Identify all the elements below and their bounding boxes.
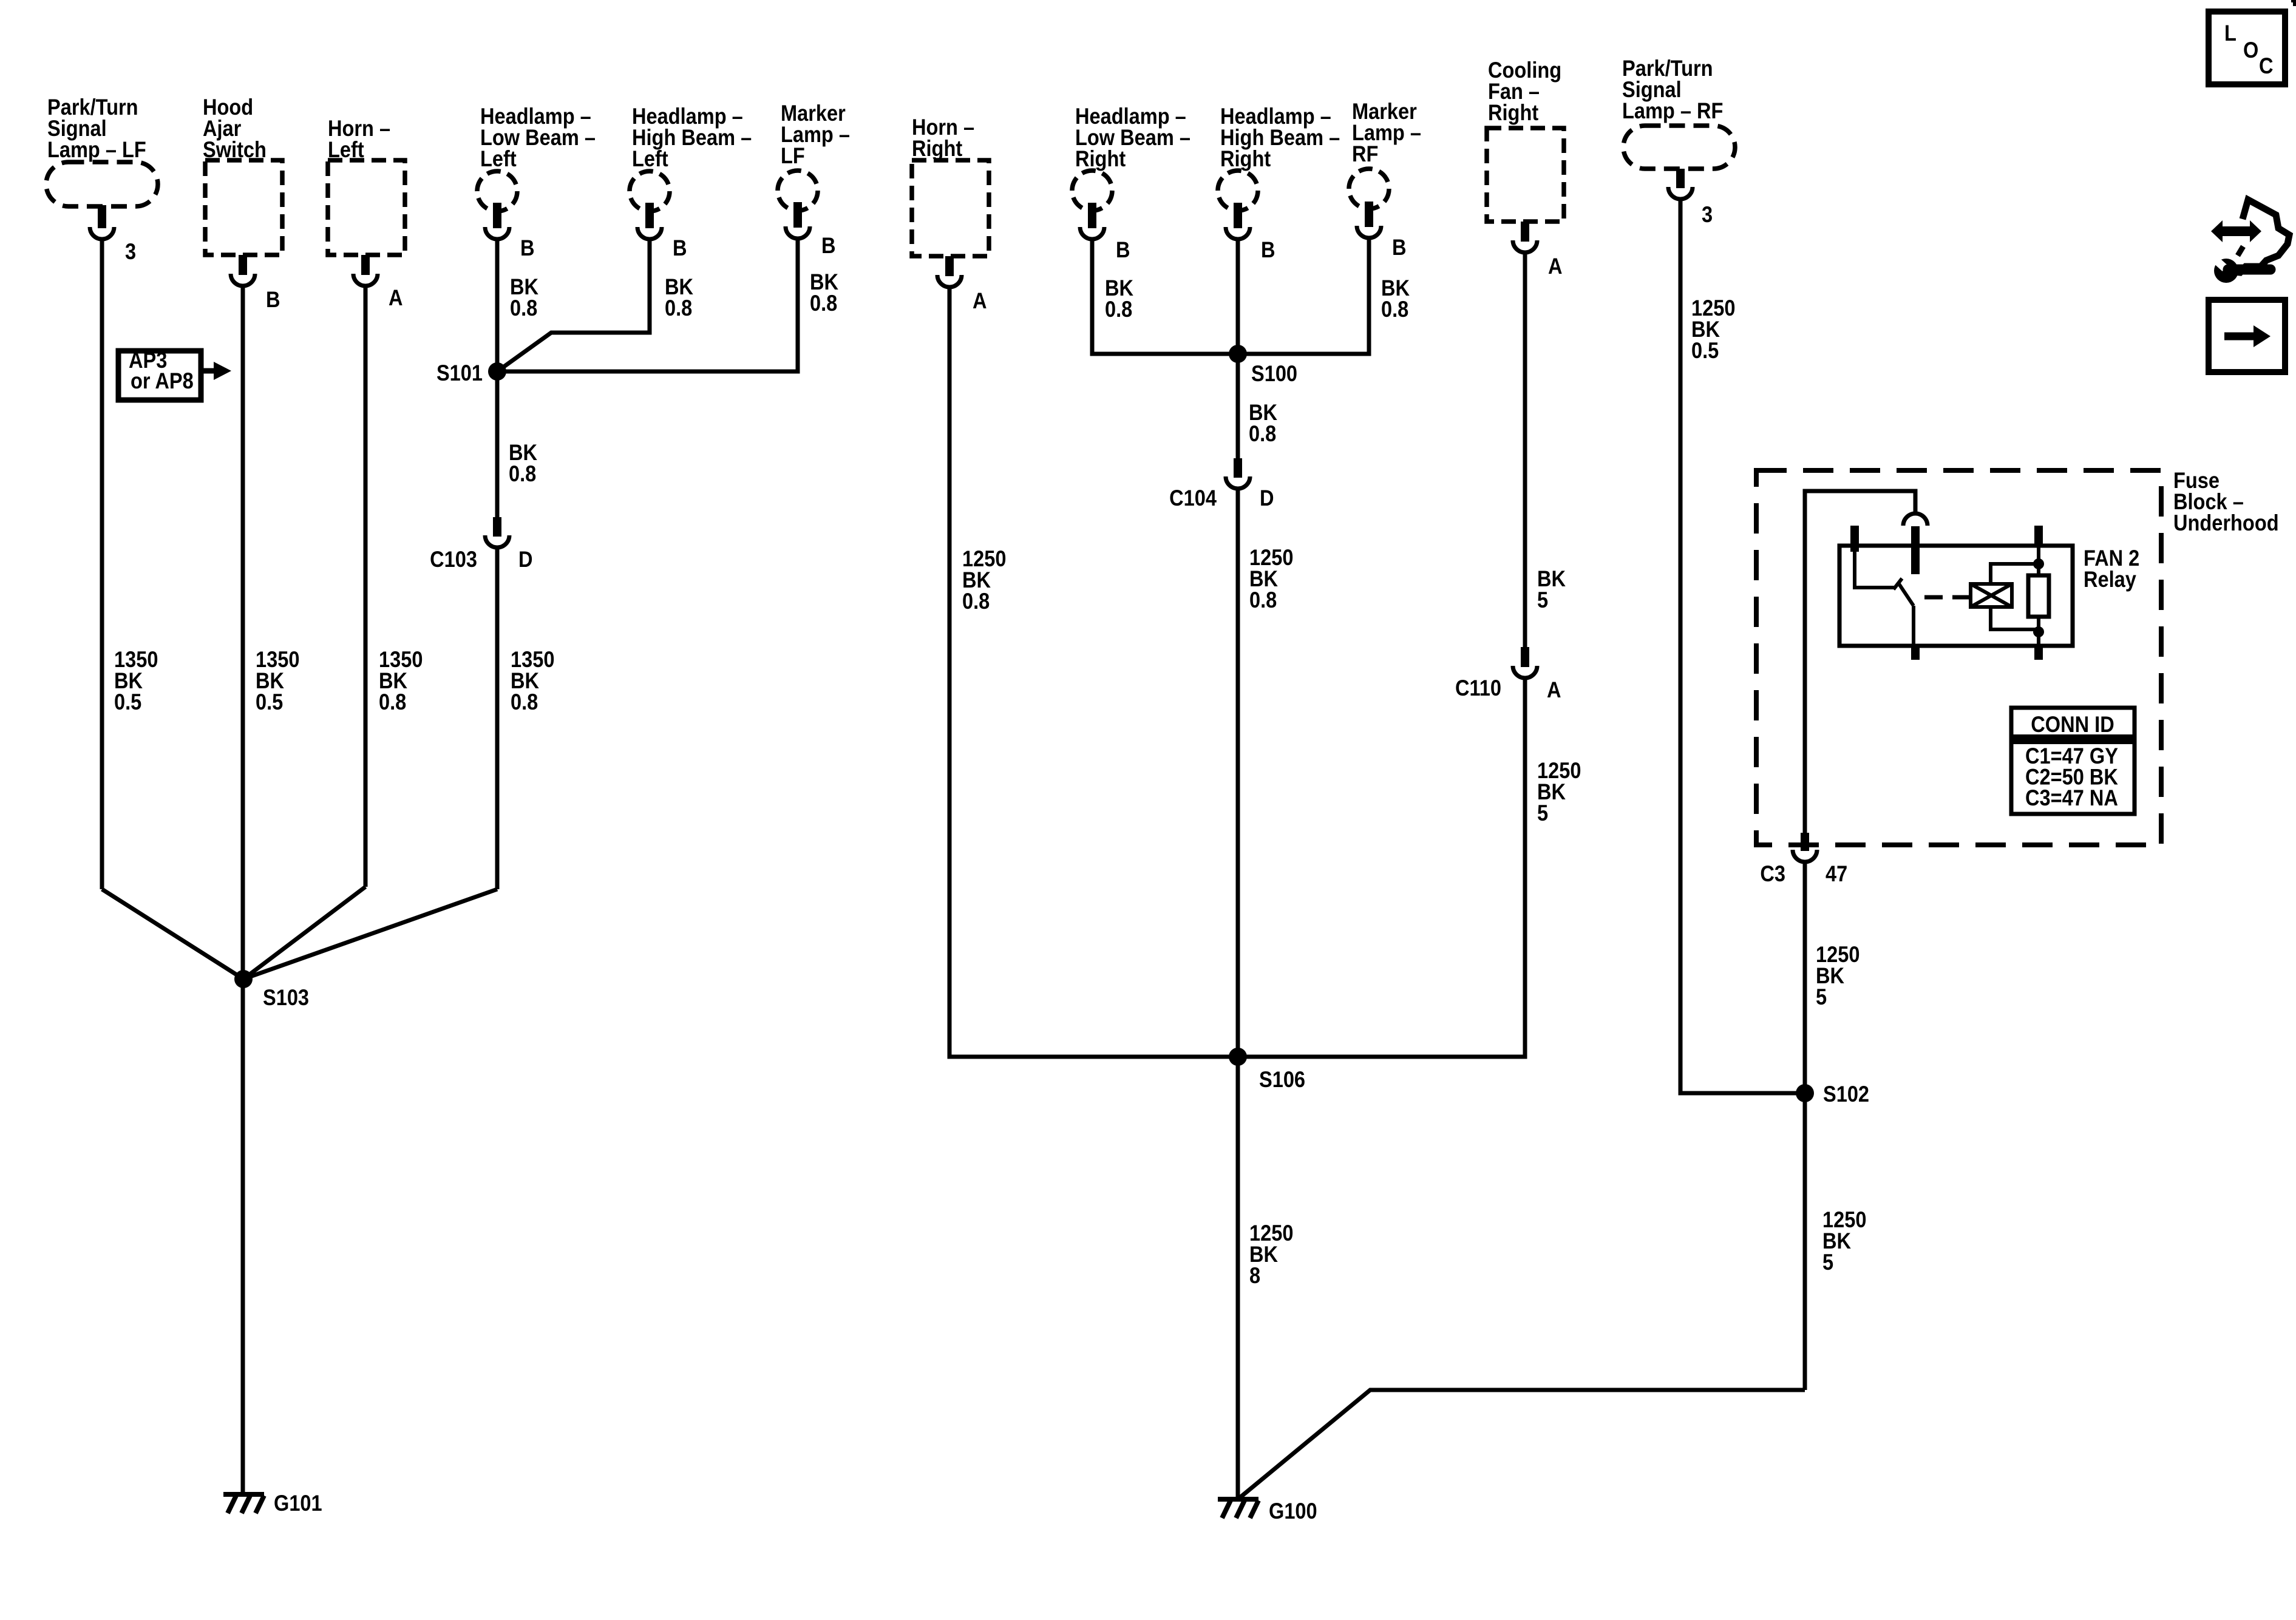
svg-text:0.8: 0.8	[1381, 297, 1408, 322]
svg-text:A: A	[389, 285, 403, 310]
svg-text:Right: Right	[1220, 146, 1271, 171]
svg-text:B: B	[1261, 237, 1275, 262]
svg-text:B: B	[520, 236, 535, 260]
svg-text:C103: C103	[430, 547, 477, 572]
svg-text:0.8: 0.8	[1105, 297, 1132, 322]
svg-text:Lamp – LF: Lamp – LF	[47, 137, 146, 162]
svg-text:Left: Left	[480, 146, 517, 171]
svg-text:A: A	[1547, 677, 1561, 702]
svg-text:C3=47 NA: C3=47 NA	[2025, 785, 2118, 810]
svg-text:0.8: 0.8	[509, 461, 536, 486]
svg-text:G100: G100	[1269, 1499, 1317, 1523]
svg-text:B: B	[1116, 237, 1130, 262]
svg-text:D: D	[518, 547, 533, 572]
svg-text:B: B	[673, 236, 687, 260]
svg-text:B: B	[266, 287, 280, 312]
svg-text:0.8: 0.8	[1249, 588, 1277, 612]
svg-text:B: B	[1392, 235, 1407, 260]
svg-text:CONN ID: CONN ID	[2031, 712, 2114, 737]
svg-text:0.5: 0.5	[114, 690, 141, 714]
svg-text:O: O	[2243, 38, 2258, 63]
svg-text:C: C	[2259, 53, 2274, 78]
svg-text:S102: S102	[1823, 1082, 1869, 1107]
svg-text:LF: LF	[781, 143, 805, 168]
svg-text:Right: Right	[1075, 146, 1126, 171]
svg-text:0.8: 0.8	[510, 296, 537, 320]
svg-text:S103: S103	[263, 985, 309, 1010]
svg-text:5: 5	[1822, 1250, 1833, 1275]
svg-text:5: 5	[1537, 801, 1548, 825]
svg-text:S100: S100	[1251, 361, 1297, 386]
svg-text:A: A	[973, 288, 987, 313]
svg-text:0.8: 0.8	[962, 589, 990, 614]
svg-text:G101: G101	[274, 1491, 322, 1516]
svg-text:0.5: 0.5	[1691, 338, 1719, 363]
svg-text:47: 47	[1826, 861, 1847, 886]
svg-text:D: D	[1260, 486, 1274, 510]
svg-text:S101: S101	[436, 361, 483, 385]
svg-text:0.5: 0.5	[256, 690, 283, 714]
svg-text:0.8: 0.8	[810, 291, 837, 316]
svg-text:5: 5	[1537, 588, 1548, 612]
svg-text:or AP8: or AP8	[131, 368, 194, 393]
svg-text:B: B	[821, 233, 836, 258]
svg-text:3: 3	[125, 239, 136, 264]
svg-text:C104: C104	[1169, 486, 1217, 510]
svg-text:Relay: Relay	[2084, 567, 2136, 592]
svg-text:0.8: 0.8	[665, 296, 692, 320]
svg-text:0.8: 0.8	[1249, 421, 1276, 446]
svg-text:Right: Right	[1488, 100, 1539, 125]
svg-text:C110: C110	[1455, 676, 1501, 700]
svg-text:0.8: 0.8	[379, 690, 406, 714]
svg-text:8: 8	[1249, 1263, 1260, 1288]
svg-text:Underhood: Underhood	[2173, 510, 2279, 535]
svg-text:Left: Left	[632, 146, 668, 171]
svg-text:Right: Right	[912, 136, 963, 161]
svg-text:L: L	[2224, 21, 2237, 46]
svg-text:RF: RF	[1352, 141, 1378, 166]
svg-text:C3: C3	[1760, 861, 1785, 886]
svg-text:A: A	[1548, 254, 1563, 279]
svg-text:Lamp – RF: Lamp – RF	[1622, 98, 1723, 123]
svg-text:3: 3	[1702, 202, 1713, 227]
svg-text:S106: S106	[1259, 1067, 1305, 1092]
svg-text:0.8: 0.8	[511, 690, 538, 714]
svg-text:5: 5	[1816, 985, 1827, 1009]
